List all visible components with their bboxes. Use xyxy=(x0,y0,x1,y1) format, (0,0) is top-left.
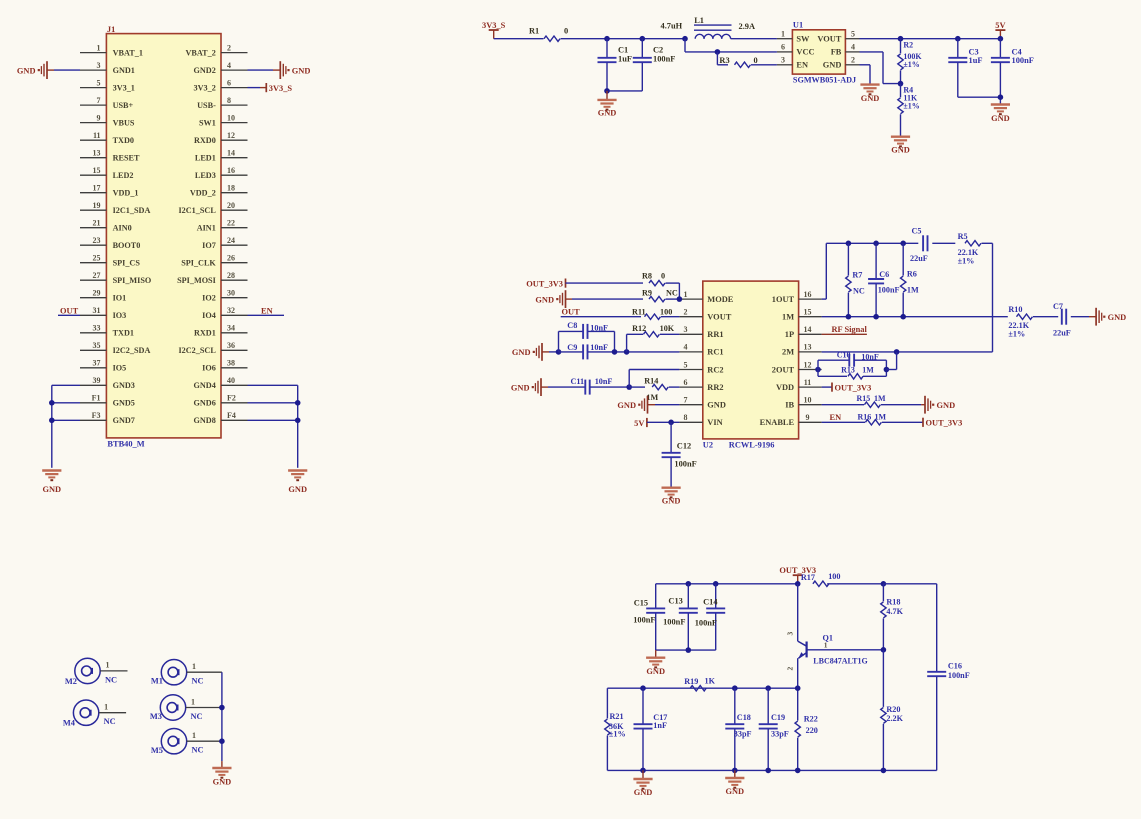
svg-text:33: 33 xyxy=(93,324,101,333)
svg-text:M1: M1 xyxy=(151,677,163,686)
svg-text:11: 11 xyxy=(93,131,101,140)
net flag OUT_3V3 right of R16 xyxy=(923,418,962,428)
U2 pin 13 2M xyxy=(782,343,822,357)
svg-text:GND: GND xyxy=(937,401,956,410)
bottom rail xyxy=(607,768,936,774)
svg-text:20: 20 xyxy=(227,201,235,210)
svg-text:3V3_S: 3V3_S xyxy=(482,21,506,30)
J1 pin 29 IO1 xyxy=(80,289,126,303)
svg-text:U1: U1 xyxy=(793,20,803,29)
svg-text:1OUT: 1OUT xyxy=(772,295,795,304)
resistor R7 NC xyxy=(846,243,865,316)
svg-text:OUT: OUT xyxy=(60,306,79,315)
svg-text:100: 100 xyxy=(828,572,840,581)
svg-text:10nF: 10nF xyxy=(595,377,613,386)
U2 pin 7 GND xyxy=(679,396,726,410)
svg-text:SPI_CS: SPI_CS xyxy=(113,259,141,268)
net flag 5V at VIN xyxy=(634,418,679,428)
svg-text:C12: C12 xyxy=(677,441,691,450)
svg-text:R21: R21 xyxy=(610,712,624,721)
svg-text:GND: GND xyxy=(42,485,61,494)
J1 pin 35 I2C2_SDA xyxy=(80,341,150,355)
J1 pin F1 GND5 xyxy=(80,394,135,408)
svg-text:1: 1 xyxy=(824,641,828,650)
U1 pin 5 VOUT xyxy=(817,30,859,44)
svg-text:R10: R10 xyxy=(1008,305,1022,314)
svg-text:7: 7 xyxy=(97,96,101,105)
U2 pin 12 2OUT xyxy=(772,360,822,374)
svg-text:USB+: USB+ xyxy=(113,101,134,110)
resistor R14 1M xyxy=(629,377,679,403)
net label RF Signal at 1P xyxy=(822,325,868,334)
svg-text:RR1: RR1 xyxy=(707,330,723,339)
svg-text:6: 6 xyxy=(227,78,231,87)
svg-text:GND: GND xyxy=(707,401,726,410)
wire 1M long rail xyxy=(822,314,1008,320)
svg-text:36: 36 xyxy=(227,341,235,350)
J1 pin F3 GND7 xyxy=(80,411,135,425)
capacitor C2 100nF xyxy=(633,39,676,91)
U2 pin 5 RC2 xyxy=(679,360,723,374)
svg-text:±1%: ±1% xyxy=(903,60,919,69)
svg-text:1: 1 xyxy=(192,662,196,671)
svg-text:5V: 5V xyxy=(634,419,644,428)
svg-text:GND: GND xyxy=(17,66,36,75)
svg-text:C3: C3 xyxy=(969,48,979,57)
resistor R6 1M xyxy=(901,243,919,316)
svg-text:R18: R18 xyxy=(886,597,900,606)
svg-text:MODE: MODE xyxy=(707,295,733,304)
svg-text:37: 37 xyxy=(93,359,101,368)
svg-text:RCWL-9196: RCWL-9196 xyxy=(729,440,775,449)
svg-text:EN: EN xyxy=(261,306,273,315)
svg-text:R19: R19 xyxy=(684,677,698,686)
svg-text:GND: GND xyxy=(646,667,665,676)
J1 pin 9 VBUS xyxy=(80,113,135,127)
svg-text:R17: R17 xyxy=(801,573,815,582)
svg-text:R7: R7 xyxy=(852,271,862,280)
capacitor C3 1uF xyxy=(948,39,982,97)
J1 pin F4 GND8 xyxy=(194,411,248,425)
J1 pin 7 USB+ xyxy=(80,96,134,110)
resistor R2 100K xyxy=(898,39,923,84)
svg-text:220: 220 xyxy=(806,726,818,735)
svg-text:GND: GND xyxy=(617,401,636,410)
capacitor C10 10nF parallel branch xyxy=(815,351,886,373)
wire pin4 to GND port xyxy=(248,69,281,71)
power flag 3V3_S xyxy=(482,21,506,39)
svg-text:24: 24 xyxy=(227,236,235,245)
ground GND port at U2 pin7 xyxy=(617,396,679,414)
J1 pin 3 GND1 xyxy=(80,61,135,75)
svg-text:IB: IB xyxy=(785,401,794,410)
ground GND port right of R15 xyxy=(921,396,955,414)
svg-text:EN: EN xyxy=(830,413,842,422)
svg-text:R3: R3 xyxy=(719,56,729,65)
U2 pin 10 IB xyxy=(785,396,821,410)
resistor R3 0 on EN xyxy=(717,52,777,68)
svg-text:5: 5 xyxy=(851,30,855,39)
svg-text:NC: NC xyxy=(104,717,116,726)
net flag OUT_3V3 at VDD xyxy=(822,383,872,393)
svg-text:21: 21 xyxy=(93,219,101,228)
svg-text:1uF: 1uF xyxy=(618,55,632,64)
power flag OUT_3V3 bottom section xyxy=(779,566,816,584)
U1 pin 6 VCC xyxy=(777,43,815,57)
wire VOUT 5V rail xyxy=(860,36,1001,42)
microphone pad M2 xyxy=(65,658,128,686)
J1 pin 21 AIN0 xyxy=(80,219,132,233)
resistor R4 11K xyxy=(898,84,920,137)
J1 pin 30 IO2 xyxy=(202,289,247,303)
svg-text:C18: C18 xyxy=(737,713,751,722)
svg-text:5: 5 xyxy=(684,360,688,369)
svg-text:10nF: 10nF xyxy=(590,343,608,352)
svg-text:10K: 10K xyxy=(660,324,675,333)
svg-text:R12: R12 xyxy=(632,324,646,333)
inductor L1 4.7uH xyxy=(661,16,756,39)
svg-text:GND: GND xyxy=(288,485,307,494)
J1 pin 1 VBAT_1 xyxy=(80,43,143,57)
svg-text:IO7: IO7 xyxy=(202,241,216,250)
capacitor C17 1nF xyxy=(634,688,668,770)
svg-text:0: 0 xyxy=(754,56,758,65)
svg-text:11: 11 xyxy=(804,378,812,387)
svg-text:13: 13 xyxy=(804,343,812,352)
wire L1 to U1 SW xyxy=(731,38,777,40)
svg-text:GND: GND xyxy=(861,94,880,103)
svg-text:1M: 1M xyxy=(782,313,794,322)
J1 pin 40 GND4 xyxy=(194,376,248,390)
svg-text:LBC847ALT1G: LBC847ALT1G xyxy=(813,657,867,666)
U2 pin 16 1OUT xyxy=(772,290,822,304)
J1 pin 33 TXD1 xyxy=(80,324,134,338)
svg-text:GND5: GND5 xyxy=(113,399,135,408)
power flag 5V xyxy=(995,21,1005,39)
svg-text:3: 3 xyxy=(684,325,688,334)
svg-text:29: 29 xyxy=(93,289,101,298)
svg-text:RXD1: RXD1 xyxy=(194,329,216,338)
svg-text:100nF: 100nF xyxy=(878,286,900,295)
svg-text:VDD_1: VDD_1 xyxy=(113,189,139,198)
svg-text:GND: GND xyxy=(535,295,554,304)
resistor R1 0 xyxy=(529,27,568,42)
svg-text:3: 3 xyxy=(786,631,795,635)
svg-text:17: 17 xyxy=(93,184,101,193)
svg-text:0: 0 xyxy=(564,27,568,36)
capacitor C18 33pF xyxy=(725,688,751,770)
svg-text:RC2: RC2 xyxy=(707,365,723,374)
svg-text:I2C2_SCL: I2C2_SCL xyxy=(178,346,216,355)
capacitor C15 100nF xyxy=(633,584,665,650)
svg-text:VDD_2: VDD_2 xyxy=(190,189,216,198)
svg-text:TXD1: TXD1 xyxy=(113,329,134,338)
svg-text:1nF: 1nF xyxy=(653,721,667,730)
svg-text:RF Signal: RF Signal xyxy=(832,325,868,334)
junction dots on left ground rail xyxy=(49,400,55,423)
svg-text:8: 8 xyxy=(684,413,688,422)
ground below C12 xyxy=(662,488,681,506)
svg-text:M2: M2 xyxy=(65,677,77,686)
wire R1 to L1 xyxy=(561,38,686,40)
svg-text:IO5: IO5 xyxy=(113,364,127,373)
wire J1 pins 40/F2/F4 to ground rail xyxy=(248,385,298,468)
U2 pin 6 RR2 xyxy=(679,378,723,392)
svg-text:35: 35 xyxy=(93,341,101,350)
svg-text:C2: C2 xyxy=(653,46,663,55)
svg-text:6: 6 xyxy=(684,378,688,387)
J1 pin 5 3V3_1 xyxy=(80,78,135,92)
ground below U1 pin2 xyxy=(860,85,879,103)
resistor R18 4.7K xyxy=(881,584,904,650)
J1 pin 18 VDD_2 xyxy=(190,184,248,198)
svg-text:GND8: GND8 xyxy=(194,416,216,425)
svg-text:LED2: LED2 xyxy=(113,171,134,180)
svg-text:3: 3 xyxy=(97,61,101,70)
capacitor C19 33pF xyxy=(759,688,789,770)
svg-text:100nF: 100nF xyxy=(1012,56,1034,65)
svg-text:30: 30 xyxy=(227,289,235,298)
svg-text:GND3: GND3 xyxy=(113,381,135,390)
svg-text:U2: U2 xyxy=(703,440,713,449)
svg-text:F4: F4 xyxy=(227,411,236,420)
svg-text:LED3: LED3 xyxy=(195,171,216,180)
wire 1OUT up to top rail xyxy=(822,243,919,299)
svg-text:1uF: 1uF xyxy=(969,56,983,65)
svg-text:GND: GND xyxy=(991,114,1010,123)
resistor R20 2.2K xyxy=(881,650,904,771)
svg-text:R6: R6 xyxy=(907,270,917,279)
U2 pin 9 ENABLE xyxy=(760,413,822,427)
net flag OUT_3V3 to R8 xyxy=(526,279,643,289)
svg-text:100nF: 100nF xyxy=(695,619,717,628)
junction dots C1 C2 L1 xyxy=(604,36,688,42)
svg-text:R20: R20 xyxy=(886,705,900,714)
svg-text:22: 22 xyxy=(227,219,235,228)
svg-text:IO2: IO2 xyxy=(202,294,216,303)
svg-text:3V3_S: 3V3_S xyxy=(269,84,293,93)
svg-text:33pF: 33pF xyxy=(734,730,752,739)
J1 pin 19 I2C1_SDA xyxy=(80,201,150,215)
J1 pin 26 SPI_CLK xyxy=(181,254,247,268)
top rail wires xyxy=(656,581,801,587)
svg-text:I2C1_SCL: I2C1_SCL xyxy=(178,206,216,215)
svg-text:SW: SW xyxy=(796,35,810,44)
svg-text:VIN: VIN xyxy=(707,418,722,427)
svg-text:C11: C11 xyxy=(571,377,585,386)
svg-text:VBAT_2: VBAT_2 xyxy=(185,48,215,57)
caps bottom rail xyxy=(656,647,716,653)
svg-text:GND2: GND2 xyxy=(194,66,216,75)
svg-text:VCC: VCC xyxy=(796,48,814,57)
svg-text:5: 5 xyxy=(97,78,101,87)
svg-text:SGMWB051-ADJ: SGMWB051-ADJ xyxy=(793,75,856,84)
svg-text:10: 10 xyxy=(227,113,235,122)
junction FB node xyxy=(898,81,904,87)
svg-text:VOUT: VOUT xyxy=(707,313,731,322)
svg-text:33pF: 33pF xyxy=(771,730,789,739)
mic ground rail xyxy=(219,672,225,768)
J1 pin F2 GND6 xyxy=(194,394,248,408)
svg-text:2M: 2M xyxy=(782,348,794,357)
svg-text:4: 4 xyxy=(227,61,231,70)
capacitor C7 22uF xyxy=(1053,302,1089,338)
svg-text:15: 15 xyxy=(804,308,812,317)
svg-text:SPI_MOSI: SPI_MOSI xyxy=(177,276,216,285)
svg-text:1K: 1K xyxy=(705,676,716,685)
J1 pin 36 I2C2_SCL xyxy=(178,341,247,355)
svg-text:J1: J1 xyxy=(107,25,115,34)
svg-text:GND: GND xyxy=(634,788,653,797)
svg-text:39: 39 xyxy=(93,376,101,385)
connector J1 xyxy=(106,25,221,449)
svg-text:GND: GND xyxy=(598,109,617,118)
svg-text:15: 15 xyxy=(93,166,101,175)
svg-text:GND: GND xyxy=(1108,313,1127,322)
svg-text:RESET: RESET xyxy=(113,154,140,163)
wire 3V3_S to R1 xyxy=(494,38,544,40)
svg-text:9: 9 xyxy=(97,113,101,122)
J1 pin 2 VBAT_2 xyxy=(185,43,247,57)
svg-text:GND: GND xyxy=(511,383,530,392)
emitter row wires xyxy=(607,685,800,691)
J1 pin 14 LED1 xyxy=(195,149,248,163)
U1 pin 3 EN xyxy=(777,56,808,70)
resistor R10 22.1K xyxy=(1008,305,1058,339)
J1 pin 12 RXD0 xyxy=(194,131,248,145)
svg-text:BTB40_M: BTB40_M xyxy=(107,440,144,449)
svg-text:1: 1 xyxy=(97,43,101,52)
U2 pin 14 1P xyxy=(785,325,822,339)
U1 pin 1 SW xyxy=(777,30,810,44)
wire C3 bottom to C4 xyxy=(958,94,1003,100)
svg-text:±1%: ±1% xyxy=(609,730,626,739)
svg-text:4: 4 xyxy=(684,343,688,352)
svg-text:3V3_2: 3V3_2 xyxy=(194,83,216,92)
svg-text:SPI_MISO: SPI_MISO xyxy=(113,276,152,285)
wire 2OUT branch to 2M xyxy=(886,352,896,370)
J1 pin 15 LED2 xyxy=(80,166,134,180)
svg-text:6: 6 xyxy=(781,43,785,52)
svg-text:100nF: 100nF xyxy=(663,617,685,626)
svg-text:4.7K: 4.7K xyxy=(886,607,903,616)
J1 pin 16 LED3 xyxy=(195,166,248,180)
svg-text:AIN0: AIN0 xyxy=(113,224,132,233)
svg-text:100: 100 xyxy=(660,308,672,317)
svg-text:4.7uH: 4.7uH xyxy=(661,22,683,31)
ground GND port at C8/C9 xyxy=(512,343,559,361)
microphone pad M1 xyxy=(151,660,222,686)
svg-text:R14: R14 xyxy=(644,377,658,386)
svg-text:100nF: 100nF xyxy=(674,460,696,469)
resistor R21 36K xyxy=(605,688,626,770)
svg-text:OUT_3V3: OUT_3V3 xyxy=(835,383,872,392)
svg-text:31: 31 xyxy=(93,306,101,315)
U2 pin 11 VDD xyxy=(776,378,822,392)
svg-text:GND: GND xyxy=(662,496,681,505)
J1 pin 4 GND2 xyxy=(194,61,248,75)
svg-text:IO4: IO4 xyxy=(202,311,216,320)
svg-text:C7: C7 xyxy=(1053,302,1063,311)
resistor R5 22.1K xyxy=(958,232,993,266)
svg-text:±1%: ±1% xyxy=(1008,330,1025,339)
svg-text:RR2: RR2 xyxy=(707,383,723,392)
svg-text:USB-: USB- xyxy=(197,101,216,110)
svg-text:16: 16 xyxy=(804,290,812,299)
ground below mic rail xyxy=(212,768,231,787)
resistor R11 100 xyxy=(632,308,679,320)
J1 pin 31 IO3 xyxy=(80,306,126,320)
J1 pin 8 USB- xyxy=(197,96,247,110)
svg-text:M5: M5 xyxy=(151,746,163,755)
svg-text:1M: 1M xyxy=(874,394,886,403)
svg-text:R9: R9 xyxy=(642,289,652,298)
svg-text:FB: FB xyxy=(831,48,842,57)
svg-text:OUT: OUT xyxy=(562,308,581,317)
svg-text:F3: F3 xyxy=(92,411,101,420)
svg-text:C4: C4 xyxy=(1012,48,1023,57)
transistor Q1 LBC847ALT1G xyxy=(786,584,887,688)
wire R5 down to 2M line xyxy=(992,243,994,352)
svg-text:GND1: GND1 xyxy=(113,66,135,75)
svg-text:ENABLE: ENABLE xyxy=(760,418,795,427)
U2 pin 1 MODE xyxy=(679,290,733,304)
capacitor C11 10nF xyxy=(571,377,630,394)
svg-text:2: 2 xyxy=(851,56,855,65)
svg-text:VOUT: VOUT xyxy=(817,35,841,44)
svg-text:R2: R2 xyxy=(903,41,913,50)
svg-text:VDD: VDD xyxy=(776,383,794,392)
svg-text:C1: C1 xyxy=(618,46,628,55)
resistor R22 220 xyxy=(795,688,818,770)
svg-text:2.2K: 2.2K xyxy=(886,714,903,723)
wire U1 GND pin 2 to ground xyxy=(860,65,871,85)
svg-text:NC: NC xyxy=(192,677,204,686)
svg-text:NC: NC xyxy=(191,712,203,721)
svg-text:0: 0 xyxy=(661,272,665,281)
microphone pad M3 xyxy=(150,695,222,721)
svg-text:GND: GND xyxy=(292,66,311,75)
svg-text:±1%: ±1% xyxy=(958,257,975,266)
svg-text:GND: GND xyxy=(891,146,910,155)
svg-text:M4: M4 xyxy=(63,719,76,728)
svg-text:IO6: IO6 xyxy=(202,364,216,373)
ground below C15 xyxy=(646,650,665,676)
svg-text:BOOT0: BOOT0 xyxy=(113,241,141,250)
svg-text:1M: 1M xyxy=(907,286,919,295)
svg-text:I2C2_SDA: I2C2_SDA xyxy=(113,346,151,355)
svg-text:R13: R13 xyxy=(841,365,855,374)
ground GND port at R9 xyxy=(535,290,643,308)
ground GND port at J1 pin 4 xyxy=(280,61,310,79)
wire pin3 to GND port xyxy=(47,69,80,71)
svg-text:OUT_3V3: OUT_3V3 xyxy=(526,279,563,288)
svg-text:C16: C16 xyxy=(948,662,962,671)
svg-text:100nF: 100nF xyxy=(948,671,970,680)
wire top rail to C16 xyxy=(881,581,937,587)
svg-text:LED1: LED1 xyxy=(195,154,216,163)
svg-text:1: 1 xyxy=(191,697,195,706)
svg-text:C15: C15 xyxy=(634,599,648,608)
svg-text:C8: C8 xyxy=(567,321,577,330)
svg-text:AIN1: AIN1 xyxy=(197,224,216,233)
ground GND port at C11 xyxy=(511,378,585,396)
svg-text:NC: NC xyxy=(666,289,678,298)
J1 pin 32 IO4 xyxy=(202,306,247,320)
microphone pad M5 xyxy=(151,729,222,756)
J1 pin 23 BOOT0 xyxy=(80,236,140,250)
ground symbol below J1 right xyxy=(288,471,307,495)
